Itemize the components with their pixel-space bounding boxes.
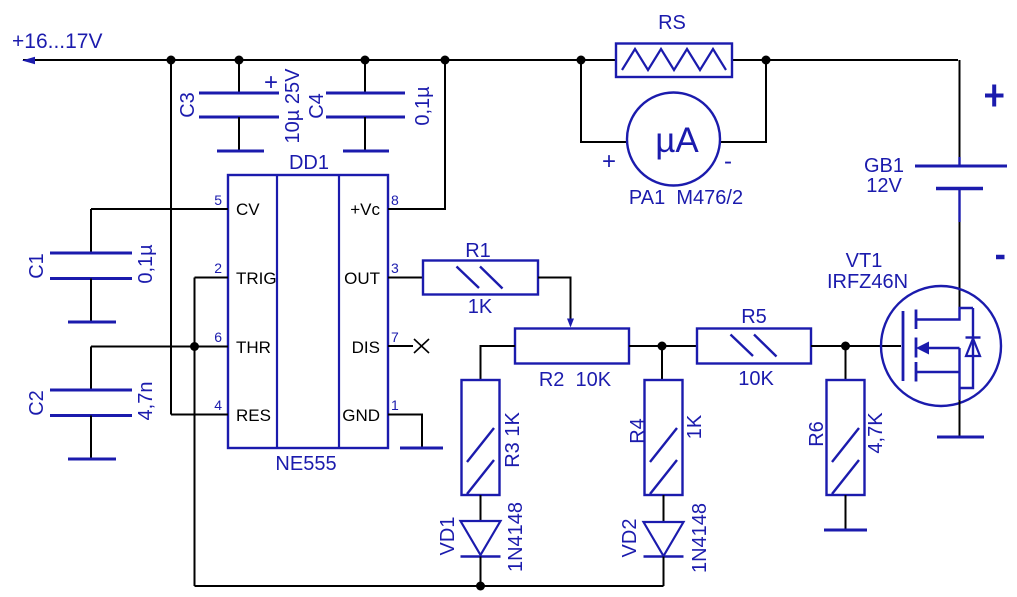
- label C3 value 10u 25V: [282, 68, 304, 144]
- wire top supply rail: [23, 59, 958, 61]
- svg-text:µA: µA: [655, 121, 699, 160]
- pin 1 GND: [342, 406, 380, 425]
- pin 5 CV: [236, 200, 260, 219]
- wire bottom rail: [195, 585, 664, 587]
- wire R2 left to R3: [481, 346, 516, 380]
- label meter minus: [724, 148, 732, 175]
- node rail-RS-right junction: [762, 56, 771, 65]
- wire rail to battery: [959, 60, 961, 157]
- capacitor C4: [326, 93, 405, 117]
- svg-text:8: 8: [391, 192, 399, 208]
- label C2 value 4,7n: [135, 382, 157, 421]
- label R1 value 1K: [468, 296, 493, 318]
- svg-text:1: 1: [391, 397, 399, 413]
- svg-text:3: 3: [391, 260, 399, 276]
- svg-text:10µ 25V: 10µ 25V: [282, 68, 304, 144]
- svg-text:4,7n: 4,7n: [135, 382, 157, 421]
- capacitor C2: [50, 390, 132, 416]
- wire C3 top lead: [238, 60, 240, 93]
- label R5: [741, 306, 767, 328]
- label R6: [806, 421, 828, 447]
- wire +Vc pin8 to rail: [388, 60, 445, 209]
- potentiometer R2: [515, 329, 629, 364]
- diode VD1: [461, 521, 501, 557]
- no-connect X on DIS: [414, 339, 429, 353]
- wire CV pin5: [91, 208, 228, 210]
- svg-text:IRFZ46N: IRFZ46N: [827, 271, 908, 293]
- wire R6 bottom lead: [845, 495, 847, 529]
- svg-text:R5: R5: [741, 306, 767, 328]
- svg-text:0,1µ: 0,1µ: [135, 244, 157, 284]
- resistor R1: [423, 261, 538, 295]
- label meter plus: [602, 148, 616, 175]
- svg-text:C3: C3: [177, 92, 199, 118]
- label R5 value 10K: [738, 368, 774, 390]
- svg-text:R3 1K: R3 1K: [502, 412, 524, 468]
- svg-text:TRIG: TRIG: [236, 269, 277, 288]
- svg-text:12V: 12V: [866, 175, 902, 197]
- svg-text:5: 5: [214, 192, 222, 208]
- svg-text:1K: 1K: [468, 296, 493, 318]
- label R4 value 1K: [684, 414, 706, 439]
- svg-text:THR: THR: [236, 338, 271, 357]
- wire C1 bottom lead: [90, 279, 92, 322]
- diode VD2: [644, 522, 684, 557]
- ground C3: [217, 150, 264, 153]
- svg-text:DD1: DD1: [289, 152, 329, 174]
- ground R6: [824, 529, 867, 532]
- svg-text:7: 7: [391, 329, 399, 345]
- svg-text:+: +: [264, 69, 278, 96]
- wire battery to drain: [959, 222, 961, 308]
- resistor RS: [616, 44, 732, 78]
- wire OUT pin3 to R1: [388, 277, 423, 279]
- label VD2 value 1N4148: [689, 503, 711, 573]
- label VT1 type IRFZ46N: [827, 271, 908, 293]
- ground C2: [68, 458, 116, 461]
- wire RES pin4: [171, 414, 228, 416]
- wire C4 top lead: [364, 60, 366, 93]
- wire THR pin6: [91, 346, 228, 348]
- label GB1: [864, 155, 904, 177]
- wire R2 right to R5: [629, 345, 697, 347]
- arrow R2 wiper: [567, 319, 574, 328]
- pin 4 RES: [236, 406, 271, 425]
- node rail-Vc junction: [441, 56, 450, 65]
- label R1: [465, 240, 491, 262]
- svg-text:VD2: VD2: [619, 519, 641, 558]
- wire R6 top lead: [845, 346, 847, 380]
- ground C1: [68, 321, 116, 324]
- svg-text:PA1 M476/2: PA1 M476/2: [629, 187, 743, 209]
- svg-text:VD1: VD1: [437, 517, 459, 556]
- label VD2: [619, 519, 641, 558]
- label C1: [26, 253, 48, 279]
- label R3 1K: [502, 412, 524, 468]
- transistor VT1: [881, 286, 1001, 406]
- svg-text:0,1µ: 0,1µ: [412, 86, 434, 126]
- label battery minus: [996, 255, 1005, 260]
- svg-text:C1: C1: [26, 253, 48, 279]
- wire DIS pin7 stub: [388, 345, 413, 347]
- resistor R5: [697, 329, 811, 364]
- label NE555: [275, 453, 336, 475]
- label VD1: [437, 517, 459, 556]
- svg-text:+: +: [602, 148, 616, 175]
- battery GB1: [915, 157, 1007, 222]
- svg-text:2: 2: [214, 260, 222, 276]
- label C4: [306, 93, 328, 119]
- svg-text:RS: RS: [658, 12, 686, 34]
- pin 8 +Vc: [350, 200, 380, 219]
- wire R1 to R2 wiper: [538, 278, 571, 322]
- svg-text:1N4148: 1N4148: [505, 502, 527, 572]
- svg-text:4,7K: 4,7K: [865, 412, 887, 454]
- wire C3 bottom lead: [238, 117, 240, 150]
- svg-text:+Vc: +Vc: [350, 200, 380, 219]
- wire R3 to VD1: [480, 495, 482, 521]
- label C2: [26, 390, 48, 416]
- label GB1 value 12V: [866, 175, 902, 197]
- label VT1: [846, 250, 883, 272]
- svg-text:VT1: VT1: [846, 250, 883, 272]
- svg-text:R1: R1: [465, 240, 491, 262]
- wire meter right branch: [720, 60, 766, 142]
- label C3: [177, 92, 199, 118]
- svg-text:+16...17V: +16...17V: [12, 30, 103, 53]
- label DD1: [289, 152, 329, 174]
- node rail-RS-left junction: [577, 56, 586, 65]
- label C3 plus mark: [264, 69, 278, 96]
- svg-text:GND: GND: [342, 406, 380, 425]
- label RS: [658, 12, 686, 34]
- wire R4 top lead: [661, 346, 663, 380]
- wire GND pin1: [388, 415, 422, 449]
- wire C1 top lead: [90, 209, 92, 253]
- svg-text:OUT: OUT: [344, 269, 380, 288]
- label battery plus: [985, 85, 1004, 107]
- label R4: [627, 418, 649, 444]
- wire R5 to gate: [811, 345, 901, 347]
- pin 2 TRIG: [236, 269, 277, 288]
- wire TRIG to bottom rail vertical: [194, 278, 196, 587]
- label C4 value 0,1u: [412, 86, 434, 126]
- capacitor C3: [199, 93, 279, 117]
- label meter uA: [655, 121, 699, 160]
- svg-text:RES: RES: [236, 406, 271, 425]
- svg-text:NE555: NE555: [275, 453, 336, 475]
- svg-text:10K: 10K: [738, 368, 774, 390]
- node rail-C4 junction: [361, 56, 370, 65]
- ground C4: [343, 150, 389, 153]
- svg-text:-: -: [724, 148, 732, 175]
- svg-text:GB1: GB1: [864, 155, 904, 177]
- node rail-RES junction: [167, 56, 176, 65]
- wire meter left branch: [581, 60, 627, 142]
- label R6 value 4,7K: [865, 412, 887, 454]
- wire TRIG pin2: [195, 277, 229, 279]
- wire C2 top lead: [90, 347, 92, 391]
- wire rail to RES vertical: [170, 60, 172, 415]
- pin 6 THR: [236, 338, 271, 357]
- resistor R3: [462, 380, 500, 495]
- wire VD1 to bottom rail: [480, 557, 482, 587]
- svg-text:R6: R6: [806, 421, 828, 447]
- svg-text:C2: C2: [26, 390, 48, 416]
- label R2 value: [539, 369, 612, 391]
- node R5-R6 junction: [841, 342, 850, 351]
- wire C2 bottom lead: [90, 416, 92, 459]
- op-amp DD1 timer box: [228, 175, 388, 448]
- svg-text:R2 10K: R2 10K: [539, 369, 612, 391]
- capacitor C1: [50, 253, 132, 279]
- wire VD2 to bottom rail: [663, 557, 665, 587]
- label C1 value 0,1u: [135, 244, 157, 284]
- svg-text:C4: C4: [306, 93, 328, 119]
- node rail-C3 junction: [235, 56, 244, 65]
- svg-text:4: 4: [214, 397, 222, 413]
- node R2-R4 junction: [658, 342, 667, 351]
- label PA1 M476/2: [629, 187, 743, 209]
- svg-text:CV: CV: [236, 200, 260, 219]
- resistor R4: [645, 380, 683, 495]
- pin 7 DIS: [352, 338, 380, 357]
- svg-text:1K: 1K: [684, 414, 706, 439]
- label VD1 value 1N4148: [505, 502, 527, 572]
- net +16...17V label: [12, 30, 103, 53]
- ground GND pin1: [400, 447, 443, 450]
- wire source to ground: [959, 400, 961, 436]
- svg-text:6: 6: [214, 329, 222, 345]
- arrow supply rail left end: [22, 57, 35, 64]
- node bottom rail VD1 junction: [476, 582, 485, 591]
- wire R4 to VD2: [663, 495, 665, 522]
- meter PA1: [627, 93, 720, 186]
- svg-text:DIS: DIS: [352, 338, 380, 357]
- node THR junction: [190, 342, 199, 351]
- wire C4 bottom lead: [364, 117, 366, 150]
- ground VT1 source: [937, 436, 984, 439]
- svg-text:1N4148: 1N4148: [689, 503, 711, 573]
- pin 3 OUT: [344, 269, 380, 288]
- svg-text:R4: R4: [627, 418, 649, 444]
- resistor R6: [827, 380, 865, 495]
